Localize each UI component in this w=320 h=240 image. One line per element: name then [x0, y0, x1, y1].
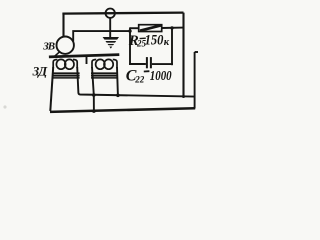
wire winding R left lead down to bottom bus [92, 67, 94, 111]
label R25 macron [140, 37, 146, 39]
wire bell to RC node [73, 31, 130, 41]
label R25 value [128, 33, 170, 49]
winding R core laminations [91, 72, 118, 74]
junction dot right bus / mid bus [182, 95, 185, 98]
svg-text:22: 22 [134, 75, 145, 85]
bell ЗВ gong circle [56, 37, 73, 54]
winding L loop 2 [65, 59, 74, 69]
scan speck [3, 105, 6, 108]
wire right edge component stub [195, 51, 198, 53]
winding L core laminations [52, 72, 80, 74]
junction dot bell wire / RC left [128, 29, 131, 32]
resistor diagonal stroke [140, 25, 161, 30]
wire terminal to ground [109, 18, 111, 38]
wire top horizontal bus [62, 13, 183, 14]
wire resistor left lead [130, 27, 139, 29]
ground earth symbol [103, 37, 119, 49]
svg-text:ЗВ: ЗВ [42, 40, 55, 52]
wire bottom bus [50, 108, 195, 112]
wire right edge component vertical [194, 52, 196, 108]
svg-text:к: к [164, 37, 170, 48]
wire right vertical bus [182, 13, 184, 97]
junction dot bottom bus [92, 109, 96, 113]
label C22 value [126, 68, 172, 85]
junction dot 4-way mid bus [92, 93, 96, 97]
wire RC right vertical [171, 27, 173, 65]
bell striker arm [53, 52, 59, 58]
wire winding L left lead down to bottom corner [50, 67, 53, 111]
terminal circle on top bus [106, 9, 115, 18]
wire winding L right lead down and mid bus [77, 67, 194, 97]
winding L loop 1 [56, 59, 65, 69]
svg-text:ЗД: ЗД [32, 64, 49, 79]
junction dot resistor lead / RC right [170, 26, 173, 29]
wire winding R right lead down to mid bus [116, 67, 119, 95]
wire resistor right lead [162, 27, 184, 29]
bell armature plate bar [49, 55, 119, 57]
svg-text:150: 150 [145, 33, 164, 49]
resistor R25 box [139, 25, 162, 32]
junction dot winding R lead / mid bus [116, 94, 120, 98]
winding R loop 1 [96, 59, 105, 69]
wire top-left drop to bell [62, 13, 64, 37]
label C22 dash [144, 70, 150, 72]
wire RC left vertical [129, 27, 131, 65]
capacitor C22 right wire [152, 63, 173, 65]
winding L right lead + loops exit [73, 60, 77, 69]
winding R loop 2 [104, 59, 113, 69]
capacitor plate right [150, 57, 152, 68]
armature support stub [86, 56, 88, 64]
capacitor plate left [146, 57, 148, 68]
winding R left lead + loops entry [92, 60, 96, 69]
winding R right lead + loops exit [113, 60, 117, 69]
winding L left lead + loops entry [53, 60, 57, 69]
capacitor C22 left wire [129, 63, 146, 65]
svg-text:1000: 1000 [150, 68, 172, 83]
